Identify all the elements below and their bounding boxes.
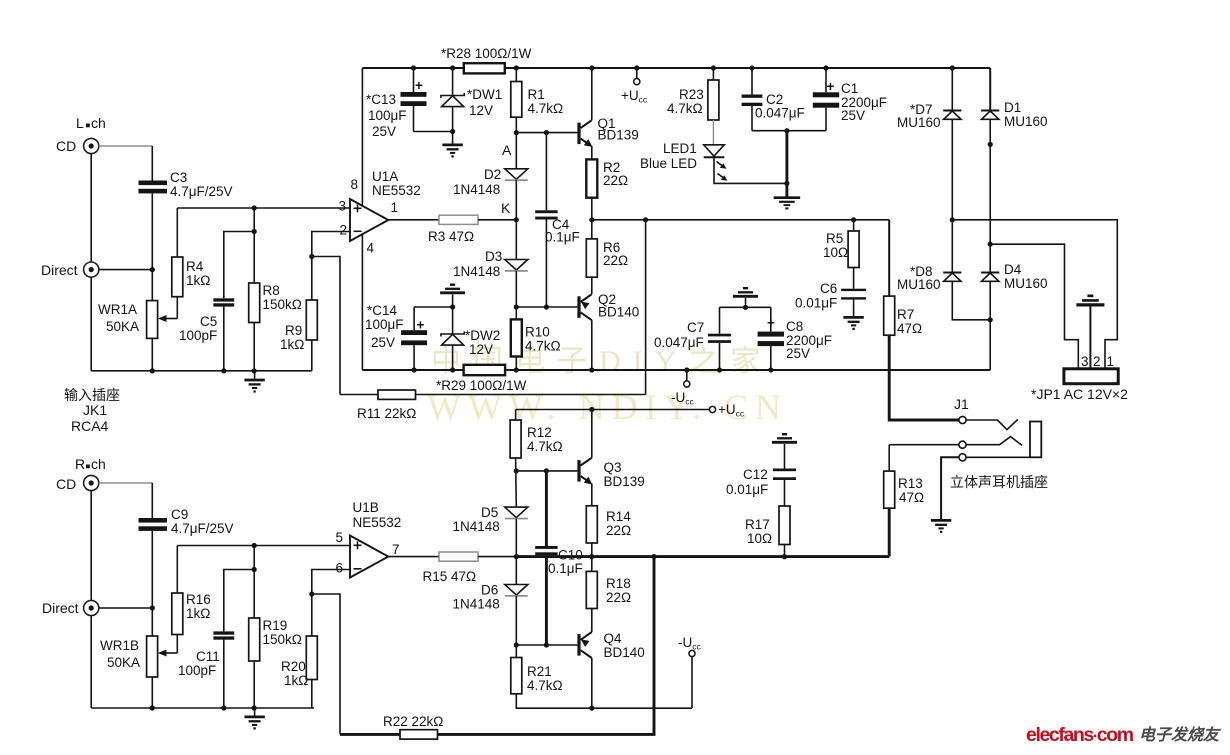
wiper arrow WR1B — [158, 650, 177, 657]
svg-text:4: 4 — [367, 241, 375, 256]
svg-text:0.1μF: 0.1μF — [545, 230, 580, 245]
node L.ch label — [76, 115, 106, 131]
resistor R3 — [428, 215, 478, 244]
svg-text:1: 1 — [1107, 354, 1115, 369]
wire noninverting input line — [177, 207, 350, 209]
node R19/bus — [252, 705, 257, 710]
wire plus node down (R) — [253, 546, 255, 619]
node R8/bus — [252, 368, 257, 373]
capacitor C3 — [139, 170, 233, 199]
wire ground column — [785, 131, 788, 197]
svg-text:R5: R5 — [826, 231, 843, 246]
svg-text:MU160: MU160 — [1004, 276, 1048, 291]
wire D6 to base2 (R) — [515, 596, 517, 658]
resistor R16 — [172, 592, 211, 635]
svg-text:WR1B: WR1B — [100, 638, 139, 653]
wire wiper to R4 — [176, 297, 178, 319]
node R22 feedback tap — [651, 554, 656, 559]
terminal -Ucc (upper rail) — [671, 367, 695, 406]
resistor R19 — [249, 618, 302, 661]
contact sleeve circle — [959, 454, 966, 461]
node DW2/C14 junction — [450, 304, 455, 309]
svg-text:1kΩ: 1kΩ — [284, 673, 308, 688]
wire LED to ground column — [714, 157, 787, 183]
svg-text:WR1A: WR1A — [98, 302, 137, 317]
svg-text:4.7kΩ: 4.7kΩ — [528, 101, 564, 116]
wire +Ucc line lower — [516, 409, 710, 411]
svg-text:C12: C12 — [743, 467, 768, 482]
svg-text:10Ω: 10Ω — [823, 245, 848, 260]
svg-text:8: 8 — [351, 177, 359, 192]
svg-text:R19: R19 — [263, 618, 288, 633]
logo elecfans — [1026, 724, 1222, 746]
zener DW2 — [441, 307, 500, 373]
svg-text:NE5532: NE5532 — [353, 515, 402, 530]
capacitor C7 — [654, 307, 731, 372]
resistor R29 — [436, 365, 527, 393]
wire R2 to output node — [591, 198, 593, 239]
svg-text:1kΩ: 1kΩ — [280, 337, 304, 352]
svg-text:R10: R10 — [525, 325, 550, 340]
connector JP1 body — [1064, 354, 1118, 384]
wire output line L — [592, 219, 889, 221]
wire wiper to R16 — [176, 635, 178, 654]
node D1 mid dot — [988, 142, 993, 147]
wire shell down to ground bus — [90, 277, 92, 371]
node C10 bottom junction — [544, 642, 549, 647]
svg-text:R12: R12 — [527, 425, 552, 440]
capacitor C5 — [179, 298, 234, 343]
wire R4 top to noninverting line — [176, 208, 178, 257]
svg-text:10Ω: 10Ω — [747, 531, 772, 546]
contact tip circle — [959, 416, 966, 423]
wire R20 bottom to bus — [311, 680, 313, 709]
ground below DW1 — [442, 132, 462, 158]
svg-text:+: + — [827, 79, 835, 94]
wire Direct to input column — [99, 269, 153, 271]
svg-text:R18: R18 — [606, 576, 631, 591]
node base2 junction (R) — [514, 642, 519, 647]
svg-text:25V: 25V — [371, 335, 395, 350]
wire ring line from R13 — [889, 444, 959, 446]
wire base2 to Q4 — [516, 644, 577, 646]
wire R17 to output line — [784, 545, 786, 557]
wire R18 to Q4 emitter — [591, 609, 593, 632]
svg-text:12V: 12V — [469, 342, 493, 357]
wire Q1 emitter to R2 — [591, 146, 593, 159]
svg-text:R22 22kΩ: R22 22kΩ — [383, 714, 443, 729]
wire input column top — [151, 146, 153, 181]
svg-text:C9: C9 — [171, 507, 188, 522]
svg-text:1N4148: 1N4148 — [453, 519, 500, 534]
wire R19 bottom to bus — [253, 661, 255, 708]
svg-text:*JP1 AC 12V×2: *JP1 AC 12V×2 — [1031, 386, 1128, 402]
svg-text:7: 7 — [392, 542, 400, 557]
svg-text:C1: C1 — [841, 81, 858, 96]
resistor R18 — [586, 571, 631, 608]
svg-text:0.047μF: 0.047μF — [755, 106, 805, 121]
wire R9 bottom to bus — [311, 340, 313, 371]
wire R12 to base1 (R) — [515, 458, 518, 507]
wire R3 to node K — [478, 219, 516, 221]
tip spring contact — [966, 420, 1018, 430]
svg-text:CD: CD — [56, 476, 76, 492]
resistor R4 — [172, 257, 211, 297]
wire inverting input line — [312, 232, 350, 301]
resistor R7 — [884, 296, 922, 336]
svg-text:1kΩ: 1kΩ — [186, 273, 210, 288]
wire to C11 — [224, 570, 254, 632]
ground bus (input) — [91, 370, 312, 372]
svg-text:R9: R9 — [285, 323, 302, 338]
svg-text:A: A — [502, 142, 512, 158]
svg-text:150kΩ: 150kΩ — [263, 632, 302, 647]
diode D6 — [453, 583, 528, 612]
svg-text:Direct: Direct — [42, 600, 79, 616]
svg-text:100μF: 100μF — [368, 108, 407, 123]
wire C7/C8 top link — [720, 306, 771, 308]
diode D2 — [453, 167, 528, 197]
svg-text:*DW1: *DW1 — [467, 87, 502, 102]
wire inverting line (R) — [312, 570, 350, 637]
capacitor C13 — [366, 65, 453, 139]
potentiometer WR1A — [98, 301, 158, 339]
svg-text:22Ω: 22Ω — [606, 590, 631, 605]
svg-text:3: 3 — [1081, 354, 1089, 369]
svg-text:3: 3 — [339, 199, 347, 214]
svg-text:*C13: *C13 — [366, 92, 396, 107]
node LED/ground column — [784, 181, 789, 186]
svg-text:1N4148: 1N4148 — [453, 182, 500, 197]
resistor R2 — [586, 159, 628, 197]
capacitor C1 — [813, 65, 887, 130]
svg-text:D6: D6 — [481, 583, 498, 598]
node output R — [589, 554, 594, 559]
svg-text:4.7kΩ: 4.7kΩ — [527, 678, 563, 693]
svg-text:0.01μF: 0.01μF — [795, 296, 837, 311]
diode D1 — [981, 68, 1047, 244]
svg-text:CD: CD — [56, 138, 76, 154]
wire shell vertical (R) — [90, 491, 92, 601]
svg-text:22Ω: 22Ω — [603, 253, 628, 268]
node C4 bottom junction — [544, 304, 549, 309]
svg-text:4.7kΩ: 4.7kΩ — [667, 101, 703, 116]
svg-text:100pF: 100pF — [178, 663, 216, 678]
svg-text:+: + — [415, 78, 423, 93]
svg-text:D5: D5 — [481, 505, 498, 520]
wire U1B output — [388, 556, 439, 558]
svg-text:BD140: BD140 — [598, 305, 639, 320]
ground below C1/C2 — [774, 198, 801, 210]
svg-text:RCA4: RCA4 — [71, 418, 109, 434]
svg-text:NE5532: NE5532 — [372, 183, 421, 198]
LED LED1 — [640, 141, 728, 181]
ground below sleeve — [931, 520, 951, 533]
wire base1 to Q3 — [516, 470, 577, 472]
svg-text:4.7kΩ: 4.7kΩ — [527, 439, 563, 454]
wire U1A output — [388, 219, 439, 221]
capacitor C14 — [365, 303, 427, 373]
svg-text:Q3: Q3 — [604, 460, 622, 475]
svg-text:JK1: JK1 — [83, 402, 107, 418]
svg-text:25V: 25V — [372, 124, 396, 139]
transistor Q3 — [577, 458, 644, 489]
ground symbol input bus — [244, 371, 264, 393]
svg-text:立体声耳机插座: 立体声耳机插座 — [950, 474, 1048, 490]
resistor R6 — [586, 239, 628, 277]
ground symbol R bus — [244, 708, 264, 730]
resistor R8 — [249, 283, 302, 323]
svg-text:LED1: LED1 — [663, 141, 697, 156]
svg-text:4.7μF/25V: 4.7μF/25V — [171, 521, 234, 536]
svg-text:BD139: BD139 — [598, 128, 639, 143]
svg-text:Q4: Q4 — [604, 631, 623, 646]
wire jack shell vertical — [90, 154, 92, 262]
node R.ch label — [75, 456, 106, 472]
wire R14 to output node (R) — [591, 543, 593, 571]
node C11/bus — [221, 705, 226, 710]
capacitor C12 — [726, 467, 796, 506]
resistor R21 — [511, 658, 563, 694]
jack CD (R) — [56, 475, 99, 492]
wire feedback column upper — [645, 220, 647, 395]
wire R23 to LED — [712, 120, 714, 145]
svg-text:R13: R13 — [898, 476, 923, 491]
wire R16 top to plus line (R) — [176, 546, 178, 594]
op-amp U1A — [350, 169, 421, 241]
resistor R15 — [423, 552, 479, 584]
svg-text:C8: C8 — [786, 319, 803, 334]
node plus column — [252, 205, 257, 210]
svg-text:D4: D4 — [1004, 262, 1022, 277]
wire Q1 collector to rail — [589, 65, 594, 120]
node R17 tap — [782, 554, 787, 559]
ring spring contact — [966, 437, 1022, 446]
svg-text:D2: D2 — [484, 167, 501, 182]
svg-text:U1B: U1B — [353, 500, 379, 515]
node feedback junction — [309, 254, 314, 259]
terminal -Ucc (lower) — [678, 635, 702, 657]
node junction Direct/C3 — [150, 267, 155, 272]
svg-text:25V: 25V — [786, 346, 810, 361]
node K dot — [514, 217, 519, 222]
svg-text:R15 47Ω: R15 47Ω — [423, 569, 477, 584]
resistor R22 — [383, 714, 443, 739]
resistor R14 — [586, 506, 631, 543]
ground above JP1 pin2 — [1076, 295, 1104, 369]
wire D2 to K — [515, 180, 517, 259]
resistor R23 — [667, 65, 719, 120]
diode D3 — [453, 249, 528, 279]
resistor R11 — [357, 390, 416, 421]
svg-text:6: 6 — [336, 561, 344, 576]
svg-text:C5: C5 — [200, 314, 217, 329]
wire R8 bottom to bus — [253, 323, 255, 371]
wire R6 to Q2 emitter — [591, 277, 593, 294]
svg-text:*R28 100Ω/1W: *R28 100Ω/1W — [441, 46, 532, 61]
svg-text:R8: R8 — [263, 283, 280, 298]
wire feedback to R11 column — [312, 257, 340, 395]
resistor R13 — [884, 471, 924, 508]
sleeve wire to barrel — [966, 456, 1030, 458]
wire R11 line — [340, 394, 646, 396]
ground above C12 — [772, 433, 797, 469]
svg-text:R20: R20 — [281, 659, 306, 674]
node plus/C5 — [252, 229, 257, 234]
jack barrel — [1030, 422, 1041, 458]
wire ring corner down to R13 — [888, 445, 890, 471]
node feedback junction (R) — [309, 591, 314, 596]
node feedback tap — [643, 217, 648, 222]
svg-text:100pF: 100pF — [179, 328, 217, 343]
svg-text:+: + — [417, 318, 425, 333]
wire AC line to JP1 pin1 — [952, 220, 1117, 369]
wire node A to Q1 base — [516, 132, 577, 134]
svg-text:4.7μF/25V: 4.7μF/25V — [170, 184, 233, 199]
svg-text:ch: ch — [91, 115, 106, 131]
transistor Q1 — [577, 116, 638, 147]
svg-text:50KA: 50KA — [107, 655, 140, 670]
ground above DW2 — [440, 284, 465, 308]
capacitor C2 — [742, 65, 805, 130]
svg-text:*C14: *C14 — [367, 303, 398, 318]
svg-text:MU160: MU160 — [897, 115, 941, 130]
svg-text:100μF: 100μF — [365, 317, 404, 332]
wire to C5 — [224, 232, 254, 299]
svg-text:*DW2: *DW2 — [465, 328, 500, 343]
wire C2/C1 bottom link — [752, 130, 826, 132]
node plus/C11 — [252, 567, 257, 572]
wire R13 down to R output line — [888, 508, 891, 556]
svg-text:电子发烧友: 电子发烧友 — [1139, 726, 1222, 744]
node Direct junction (R) — [150, 605, 155, 610]
svg-text:C3: C3 — [170, 170, 187, 185]
wire pin8 supply — [361, 68, 363, 206]
svg-text:R: R — [75, 456, 85, 472]
svg-text:50KA: 50KA — [106, 319, 139, 334]
svg-text:D1: D1 — [1004, 100, 1021, 115]
resistor R1 — [511, 65, 563, 117]
svg-text:R17: R17 — [745, 517, 770, 532]
svg-text:输入插座: 输入插座 — [64, 387, 120, 403]
capacitor C6 — [795, 268, 866, 317]
wire R7 down to J1 tip — [889, 335, 959, 420]
wire Q4 collector to rail — [589, 658, 594, 711]
svg-text:150kΩ: 150kΩ — [263, 297, 302, 312]
diode D7 — [897, 65, 961, 219]
jack CD (L) — [56, 138, 99, 154]
svg-text:C6: C6 — [820, 281, 837, 296]
svg-text:0.01μF: 0.01μF — [726, 482, 768, 497]
transistor Q2 — [577, 292, 639, 320]
wire Q3 emitter to R14 — [591, 484, 593, 506]
svg-text:R11 22kΩ: R11 22kΩ — [357, 406, 416, 421]
svg-text:R3 47Ω: R3 47Ω — [428, 229, 474, 244]
svg-text:U1A: U1A — [372, 169, 398, 184]
node DW1/C13 junction — [450, 129, 455, 134]
wire feedback to R22 column — [312, 594, 340, 734]
svg-text:5: 5 — [336, 530, 344, 545]
svg-text:25V: 25V — [841, 108, 865, 123]
resistor R9 — [280, 300, 317, 352]
svg-text:Blue LED: Blue LED — [640, 156, 697, 171]
node base1 junction (R) — [514, 468, 519, 473]
capacitor C10 — [535, 471, 583, 645]
capacitor C9 — [139, 507, 234, 536]
node C7/C8 top — [743, 305, 748, 310]
resistor R5 — [823, 220, 859, 268]
node A junction — [514, 130, 519, 135]
svg-text:1: 1 — [391, 200, 399, 215]
svg-text:R1: R1 — [528, 87, 545, 102]
svg-text:BD139: BD139 — [604, 474, 645, 489]
transistor Q4 — [577, 631, 644, 660]
ground below C6 — [843, 317, 863, 330]
wire Q2 collector to rail — [589, 320, 594, 372]
ground above C7/C8 — [733, 287, 758, 307]
svg-text:4.7kΩ: 4.7kΩ — [525, 339, 561, 354]
wire C3 to Direct node — [151, 193, 153, 300]
wire R15 to node — [478, 556, 516, 558]
svg-text:D3: D3 — [485, 249, 502, 264]
jack Direct (R) — [42, 600, 99, 616]
capacitor C8 — [758, 307, 832, 372]
node WR1B/bus — [150, 705, 155, 710]
node D8/D4 junction — [988, 317, 993, 322]
svg-text:MU160: MU160 — [1004, 114, 1048, 129]
svg-text:MU160: MU160 — [897, 277, 941, 292]
svg-text:C7: C7 — [687, 320, 704, 335]
node C10 top junction — [544, 468, 549, 473]
node base2 junction — [514, 304, 519, 309]
wire WR1A bottom to bus — [151, 338, 153, 370]
op-amp U1B — [350, 500, 401, 578]
node output L — [589, 217, 594, 222]
wire Direct to column (R) — [99, 607, 153, 609]
wire AC line to JP1 pin3 — [990, 244, 1078, 369]
diode D8 — [897, 220, 990, 320]
wiper arrow WR1A — [158, 315, 177, 322]
capacitor C11 — [178, 631, 234, 678]
zener DW1 — [441, 65, 502, 131]
diode D4 — [981, 244, 1047, 370]
node plus column (R) — [252, 543, 257, 548]
capacitor C4 — [535, 133, 580, 307]
wire WR1B bottom to bus — [151, 677, 153, 708]
wire base2 to Q2 — [516, 306, 577, 308]
wire C9 to Direct node (R) — [151, 531, 153, 636]
svg-text:0.1μF: 0.1μF — [548, 561, 583, 576]
svg-text:L: L — [76, 115, 84, 131]
svg-text:R7: R7 — [897, 307, 914, 322]
svg-text:R14: R14 — [606, 509, 631, 524]
svg-text:2: 2 — [1093, 354, 1101, 369]
svg-text:22Ω: 22Ω — [603, 173, 628, 188]
node WR1A/bus — [150, 368, 155, 373]
wire bottom rail — [362, 369, 990, 371]
svg-text:22Ω: 22Ω — [606, 523, 631, 538]
wire R1 to node A — [515, 117, 517, 169]
wire D3 to base2 line — [515, 271, 517, 320]
wire noninverting line (R) — [177, 545, 350, 547]
wire C5 bottom to bus — [223, 307, 225, 371]
svg-text:C11: C11 — [196, 649, 220, 664]
wire column top (R) — [151, 483, 153, 518]
svg-text:*R29 100Ω/1W: *R29 100Ω/1W — [436, 378, 527, 393]
wire output corner to R7 — [888, 220, 890, 296]
wire shell to bus (R) — [90, 616, 92, 708]
wire output line R — [516, 555, 889, 558]
